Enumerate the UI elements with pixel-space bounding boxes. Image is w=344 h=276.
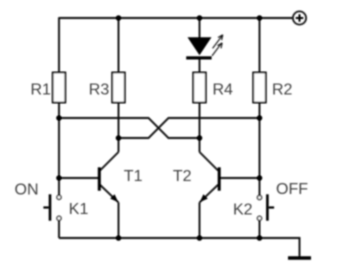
svg-text:T2: T2 <box>173 168 192 185</box>
svg-text:OFF: OFF <box>276 181 308 198</box>
svg-text:R4: R4 <box>213 82 234 99</box>
svg-text:R2: R2 <box>272 82 293 99</box>
svg-text:ON: ON <box>15 182 39 199</box>
svg-text:K1: K1 <box>69 201 89 218</box>
svg-text:R1: R1 <box>31 82 52 99</box>
svg-text:T1: T1 <box>124 168 143 185</box>
svg-text:K2: K2 <box>233 201 253 218</box>
svg-text:R3: R3 <box>89 82 110 99</box>
